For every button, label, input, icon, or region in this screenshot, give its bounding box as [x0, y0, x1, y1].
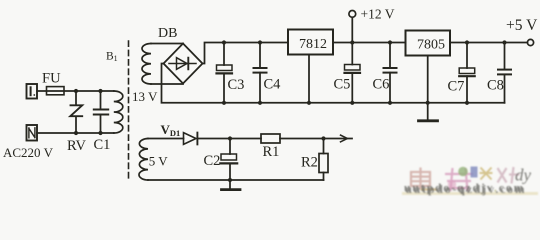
svg-text:C7: C7 [448, 79, 465, 95]
svg-text:C6: C6 [373, 77, 390, 93]
resistor R2 [319, 139, 328, 181]
svg-text:+12 V: +12 V [361, 6, 395, 21]
transformer B1 primary winding [114, 91, 123, 133]
svg-text:RV: RV [67, 138, 87, 154]
capacitor C8 [498, 43, 511, 103]
node: C6 top [388, 40, 392, 44]
capacitor C5 (electrolytic) [345, 43, 361, 103]
node: C4 top [258, 40, 262, 44]
node: C2 bottom junction [228, 178, 232, 182]
svg-text:5 V: 5 V [149, 154, 169, 169]
wire: R1 to arrow output [280, 138, 352, 140]
node: RV top junction [74, 89, 78, 93]
svg-text:13 V: 13 V [132, 89, 158, 104]
bridge rectifier DB [164, 44, 203, 84]
ground symbol below C2 [222, 180, 241, 190]
svg-text:VD1: VD1 [161, 122, 181, 138]
node: C2 top [228, 136, 232, 140]
capacitor C3 (electrolytic) [217, 43, 233, 103]
transformer 5V secondary winding [139, 139, 148, 180]
svg-text:R1: R1 [263, 144, 280, 160]
svg-text:C4: C4 [264, 77, 282, 93]
svg-text:C5: C5 [334, 77, 351, 93]
node: C1 top junction [98, 89, 102, 93]
capacitor C2 (electrolytic) [220, 139, 237, 181]
svg-text:AC220 V: AC220 V [3, 145, 54, 160]
terminal +12 V [349, 11, 356, 43]
wire: 13V winding top to bridge top vertex [151, 43, 183, 45]
watermark [402, 166, 538, 197]
wire: bridge + output up to top rail, to 7812 input [203, 43, 289, 64]
wire: 7812 output rail [333, 42, 406, 44]
svg-text:7805: 7805 [417, 38, 445, 53]
svg-text:C3: C3 [228, 77, 245, 93]
svg-text:C8: C8 [487, 78, 504, 94]
transformer core (dashed) [128, 41, 130, 179]
svg-text:uutpdo-qzdjv.com: uutpdo-qzdjv.com [404, 183, 525, 195]
terminal L (AC live input box) [27, 84, 38, 99]
resistor R1 [261, 134, 280, 143]
svg-text:+5 V: +5 V [506, 17, 538, 34]
wire: diode to R1 [197, 138, 261, 140]
wire: 13V winding bottom to bridge bottom vertex [151, 83, 183, 85]
node: C1 bottom junction [98, 131, 102, 135]
wire: live to fuse and across top [37, 90, 114, 92]
capacitor C1 [94, 91, 108, 133]
svg-text:R2: R2 [301, 155, 318, 171]
capacitor C6 [384, 43, 397, 103]
node: C3 top [222, 40, 226, 44]
regulator U1 7812 [288, 30, 333, 55]
wire: 5V winding top to diode [148, 138, 184, 140]
ground symbol below rail [419, 103, 438, 121]
diode VD1 [184, 133, 198, 145]
capacitor C4 [254, 43, 267, 103]
wire: 7805 output rail to +5V [450, 42, 527, 44]
svg-text:7812: 7812 [299, 37, 327, 52]
arrowhead on output wire [341, 135, 348, 142]
regulator U2 7805 [406, 31, 451, 56]
node: RV bottom junction [74, 131, 78, 135]
capacitor C7 (electrolytic) [459, 43, 475, 103]
node: C7 top [465, 40, 469, 44]
svg-text:DB: DB [158, 26, 177, 41]
node: bottom rail junctions [222, 101, 469, 105]
wire: 7805 ground pin [427, 56, 429, 103]
fuse FU [47, 87, 65, 95]
wire: bridge - output down, bottom rail across [162, 64, 505, 103]
node: C8 top [502, 40, 506, 44]
terminal N (AC neutral input box) [27, 125, 38, 141]
svg-text:C2: C2 [204, 153, 221, 169]
wire: lower bottom rail [148, 179, 324, 181]
transformer 13V secondary winding [142, 44, 151, 85]
node: R2 top junction [321, 136, 325, 140]
wire: neutral bottom rail [37, 132, 114, 134]
svg-text:FU: FU [42, 71, 61, 87]
wire: 7812 ground pin [308, 55, 310, 103]
svg-text:B1: B1 [106, 51, 118, 64]
node: +12V / C5 junction [350, 40, 354, 44]
varistor RV [70, 91, 82, 133]
terminal +5 V [527, 39, 533, 45]
svg-text:C1: C1 [94, 137, 111, 153]
